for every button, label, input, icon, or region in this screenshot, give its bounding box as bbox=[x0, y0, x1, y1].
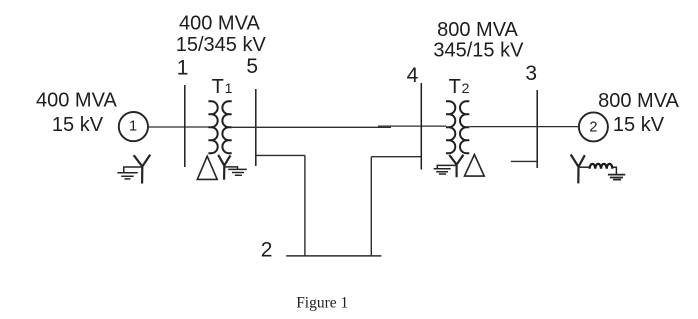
bus 3 bbox=[536, 90, 538, 168]
bus 5 bbox=[255, 89, 257, 166]
wire transmission line bus 5 to bus 4 (segment b, overlap dash) bbox=[378, 125, 446, 127]
transformer T1 secondary winding bbox=[222, 101, 231, 153]
generator G2 circle bbox=[579, 112, 608, 141]
ground T1 neutral bbox=[224, 167, 246, 175]
ground T2 neutral bbox=[434, 165, 457, 174]
bus 4 bbox=[420, 83, 422, 170]
svg-text:400 MVA: 400 MVA bbox=[36, 90, 117, 112]
svg-text:15/345 kV: 15/345 kV bbox=[176, 34, 267, 56]
transformer T2 secondary winding bbox=[460, 101, 469, 153]
svg-text:1: 1 bbox=[177, 57, 189, 80]
wire line 5-2 horizontal stub bbox=[256, 154, 305, 156]
delta symbol T2 secondary bbox=[465, 155, 485, 177]
wire transmission line bus 5 to bus 4 (segment a) bbox=[232, 126, 391, 128]
wire line 4-2 horizontal stub bbox=[371, 156, 421, 158]
wire G2 neutral to grounding reactor bbox=[579, 166, 591, 168]
wye symbol G2 neutral bbox=[571, 154, 585, 183]
svg-text:15 kV: 15 kV bbox=[613, 114, 665, 136]
generator G1 circle bbox=[119, 112, 148, 141]
wye symbol T2 primary bbox=[449, 155, 463, 177]
transformer T2 primary winding bbox=[446, 101, 455, 153]
grounding reactor G2 bbox=[590, 164, 613, 169]
wire line 4-2 vertical bbox=[370, 157, 372, 256]
wire T2 to bus 3 to G2 bbox=[469, 126, 579, 128]
transformer T1 primary winding bbox=[208, 101, 217, 153]
delta symbol T1 primary bbox=[197, 156, 217, 179]
bus 2 bbox=[286, 255, 381, 257]
ground G1 bbox=[117, 167, 142, 179]
ground G2 bbox=[608, 175, 625, 180]
bus 1 bbox=[184, 85, 186, 167]
svg-text:800 MVA: 800 MVA bbox=[598, 90, 679, 112]
wire stub at bus 3 bbox=[511, 160, 537, 162]
svg-text:2: 2 bbox=[589, 120, 597, 136]
svg-text:345/15 kV: 345/15 kV bbox=[433, 40, 524, 62]
svg-text:3: 3 bbox=[525, 62, 537, 85]
wire grounding reactor to ground G2 bbox=[612, 167, 616, 174]
svg-text:1: 1 bbox=[129, 118, 137, 134]
wire line 5-2 vertical bbox=[304, 155, 306, 256]
wye symbol G1 neutral bbox=[134, 155, 151, 184]
wire G1 to bus 1 bbox=[148, 126, 209, 128]
svg-text:4: 4 bbox=[407, 64, 419, 87]
svg-text:T1: T1 bbox=[212, 76, 233, 98]
svg-text:T2: T2 bbox=[449, 76, 470, 98]
svg-text:800 MVA: 800 MVA bbox=[437, 19, 518, 41]
svg-text:Figure 1: Figure 1 bbox=[296, 295, 348, 312]
svg-text:2: 2 bbox=[261, 239, 273, 262]
svg-text:400 MVA: 400 MVA bbox=[179, 12, 260, 34]
svg-text:15 kV: 15 kV bbox=[52, 114, 104, 136]
svg-text:5: 5 bbox=[246, 55, 258, 78]
wye symbol T1 secondary bbox=[218, 155, 230, 180]
